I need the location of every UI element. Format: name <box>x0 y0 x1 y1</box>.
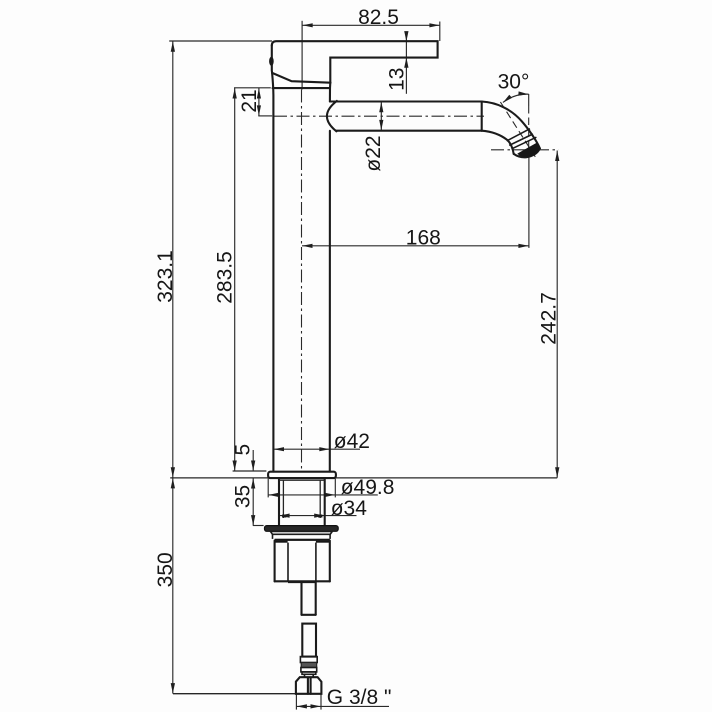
242.7 dim <box>538 151 561 478</box>
svg-text:350: 350 <box>154 552 177 587</box>
svg-text:ø22: ø22 <box>362 135 385 171</box>
center line horizontal (spout axis) <box>274 115 484 117</box>
13 dim <box>386 31 409 94</box>
deck line <box>170 477 268 479</box>
svg-text:242.7: 242.7 <box>538 292 561 345</box>
30 deg dim <box>498 71 537 159</box>
283.5 dim <box>214 88 267 471</box>
svg-text:35: 35 <box>232 485 255 508</box>
handle indicator dot <box>269 57 274 66</box>
bottom baseline <box>173 693 322 695</box>
svg-text:13: 13 <box>386 68 409 91</box>
svg-text:168: 168 <box>406 227 441 250</box>
G3/8 hex nut <box>296 677 322 694</box>
svg-text:82.5: 82.5 <box>358 6 399 29</box>
spout end face line <box>512 137 537 149</box>
svg-text:30°: 30° <box>498 71 530 94</box>
5 dim <box>232 444 256 471</box>
svg-text:G 3/8 ": G 3/8 " <box>327 686 392 709</box>
spout bend outer <box>482 102 540 149</box>
323.1 / 350 dim line <box>154 41 272 694</box>
locknut washer (dark) <box>265 526 339 532</box>
supply tube 1 <box>302 582 316 615</box>
G3/8 nut dim <box>296 686 391 710</box>
svg-text:ø42: ø42 <box>334 430 370 453</box>
locknut band <box>272 534 274 539</box>
body right edge upper <box>329 83 331 102</box>
svg-text:21: 21 <box>238 89 261 112</box>
handle lever <box>272 41 438 82</box>
body left edge <box>272 73 273 472</box>
35 dim <box>232 478 264 526</box>
base flange <box>268 472 336 478</box>
aerator ring lines <box>507 129 530 141</box>
spout bend inner <box>482 131 514 154</box>
supply tube 2 (hose) <box>302 624 316 657</box>
locknut collar <box>270 531 332 534</box>
spout joint bulge <box>327 101 337 131</box>
body top rim <box>273 87 330 89</box>
spout tip bottom <box>514 148 540 157</box>
center line vertical (body axis) <box>301 90 303 472</box>
spout pipe <box>330 100 482 102</box>
svg-text:ø49.8: ø49.8 <box>341 476 395 499</box>
82.5 dim <box>302 6 440 90</box>
aerator dark outlet <box>517 143 540 158</box>
svg-text:323.1: 323.1 <box>154 250 177 303</box>
168 dim <box>302 155 529 250</box>
locknut chamfer dark band <box>275 539 330 541</box>
svg-text:283.5: 283.5 <box>214 251 237 304</box>
shank <box>279 478 325 525</box>
svg-text:ø34: ø34 <box>331 497 368 520</box>
phi42 dim <box>274 430 370 453</box>
phi34 dim <box>279 497 367 520</box>
phi22 dim <box>362 102 385 172</box>
tip level dash line <box>491 149 559 151</box>
21 dim <box>234 88 272 116</box>
phi49.8 dim <box>268 476 394 499</box>
locknut body <box>275 541 330 583</box>
hose crimp collar <box>300 657 317 678</box>
svg-text:5: 5 <box>232 444 255 456</box>
body right edge lower <box>329 131 331 472</box>
